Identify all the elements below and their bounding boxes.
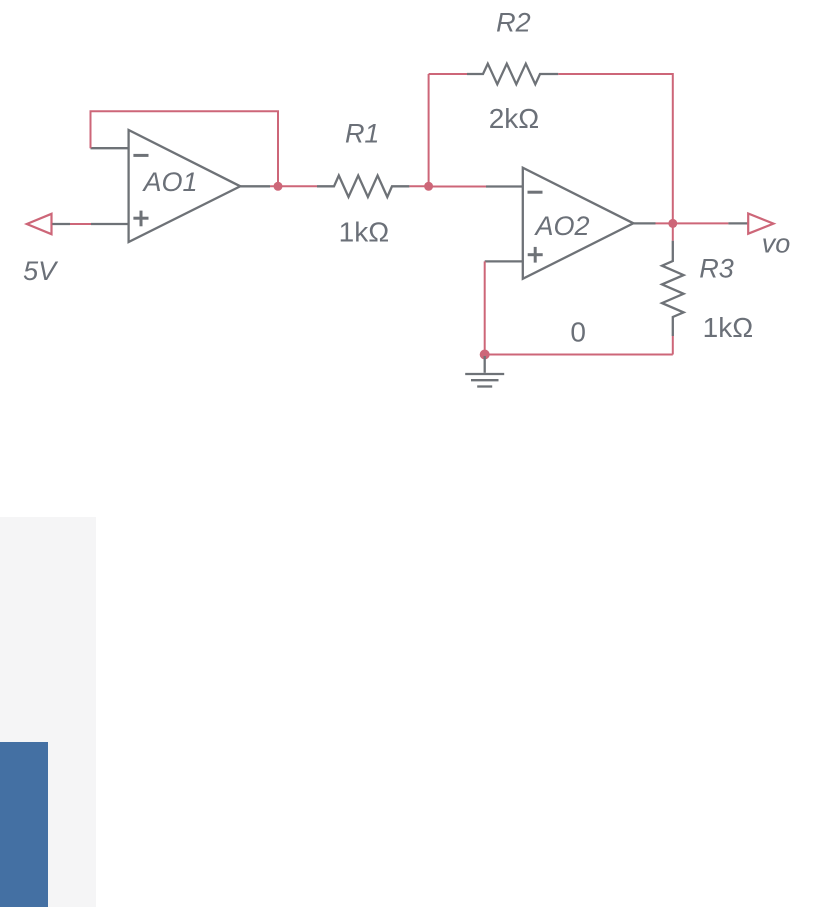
resistor R1 bbox=[317, 176, 409, 198]
svg-text:vo: vo bbox=[762, 229, 791, 259]
wire: R2 left lead (red) bbox=[429, 73, 467, 75]
svg-text:R3: R3 bbox=[699, 254, 734, 284]
node A junction dot bbox=[424, 182, 433, 191]
svg-text:AO1: AO1 bbox=[141, 167, 197, 197]
wire: vo probe pin stub (gray) bbox=[728, 222, 748, 224]
resistor R2 bbox=[467, 64, 558, 85]
svg-text:1kΩ: 1kΩ bbox=[703, 312, 754, 343]
left gray panel bbox=[0, 517, 96, 907]
wire: ground net bottom run (red) bbox=[485, 354, 673, 356]
svg-text:5V: 5V bbox=[23, 256, 59, 286]
svg-text:1kΩ: 1kΩ bbox=[339, 216, 390, 247]
svg-text:R1: R1 bbox=[345, 119, 380, 149]
node: AO2 output junction bbox=[668, 219, 677, 228]
svg-text:2kΩ: 2kΩ bbox=[489, 103, 540, 134]
op-amp AO1 bbox=[129, 130, 241, 242]
output arrow vo bbox=[748, 214, 773, 234]
wire: AO1 output net to R1 (red) bbox=[270, 185, 317, 187]
node: ground junction bbox=[480, 350, 490, 360]
wire: net from 5V source to AO1 + input (red) bbox=[70, 223, 91, 225]
svg-text:R2: R2 bbox=[496, 8, 531, 38]
wire: AO1 + input pin stub (gray) bbox=[91, 223, 129, 225]
svg-text:AO2: AO2 bbox=[533, 211, 589, 241]
wire: AO1 feedback net (red) bbox=[91, 111, 279, 186]
wire: output node down to R3 (red) bbox=[672, 223, 674, 240]
wire: R2 right lead and down to output node (red) bbox=[558, 74, 673, 223]
wire: R1 to node A (red) bbox=[409, 185, 428, 187]
ground symbol bbox=[465, 356, 504, 387]
wire: R3 bottom lead (red) bbox=[672, 336, 674, 355]
wire: source pin stub (gray) bbox=[52, 223, 70, 225]
wire: AO2 output net (red) bbox=[656, 222, 729, 224]
blue panel block bbox=[0, 742, 48, 907]
voltage source V1 input arrow (5V) bbox=[27, 214, 52, 234]
wire: AO1 output pin stub (gray) bbox=[240, 185, 270, 187]
wire: AO2 + input pin stub (gray) bbox=[485, 260, 523, 262]
wire: node A up to R2 (red) bbox=[428, 74, 430, 186]
wire: AO1 - input pin stub (gray) bbox=[91, 147, 129, 149]
svg-text:0: 0 bbox=[570, 316, 586, 347]
wire: AO2 - input pin stub (gray) bbox=[486, 185, 523, 187]
node: AO1 output junction bbox=[274, 182, 283, 191]
wire: AO2 output pin stub (gray) bbox=[633, 222, 655, 224]
op-amp AO2 bbox=[523, 168, 634, 279]
resistor R3 bbox=[662, 241, 684, 336]
wire: AO2 + input down to ground node (red) bbox=[484, 261, 486, 354]
wire: node A to AO2 - input (red) bbox=[429, 186, 486, 188]
